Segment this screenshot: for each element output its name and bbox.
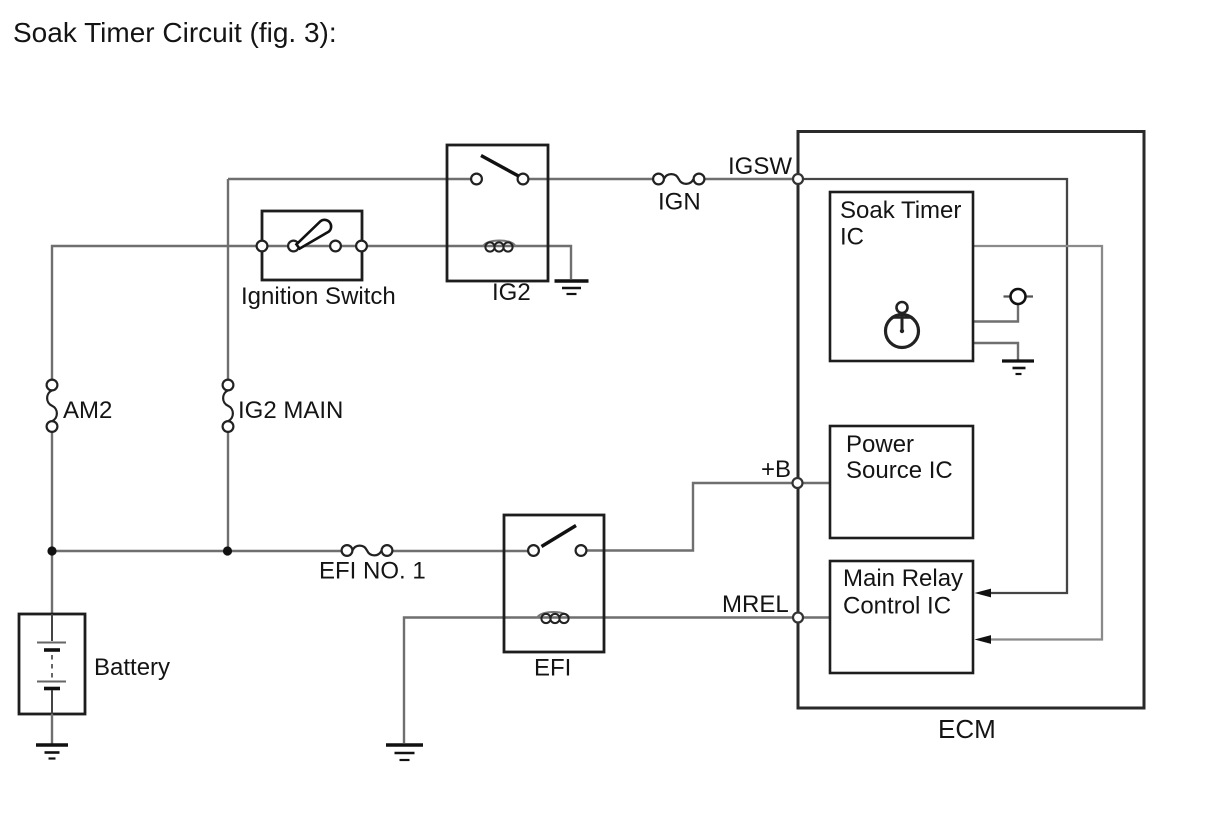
junction dot at battery bus / IG2 MAIN column	[223, 546, 232, 555]
wire y=179 from IGN fuse to IGSW node	[704, 178, 794, 180]
svg-text:Ignition Switch: Ignition Switch	[241, 283, 396, 310]
svg-text:Control IC: Control IC	[843, 593, 951, 620]
wire vertical AM2 column lower	[51, 432, 53, 551]
arrowhead into Main Relay Control IC from Soak Timer line	[975, 635, 992, 644]
wire from +B node to Power Source IC	[802, 482, 830, 484]
svg-text:Soak Timer: Soak Timer	[840, 197, 961, 224]
wire from Soak Timer IC output right and down to Main Relay Control IC arrow	[973, 246, 1102, 640]
svg-text:+B: +B	[761, 456, 791, 483]
wire from Ignition Switch right terminal to IG2 coil	[367, 246, 572, 279]
fuse AM2	[47, 380, 58, 432]
wire from AM2 column top to Ignition Switch left terminal	[52, 246, 257, 380]
fuse IG2 MAIN	[223, 380, 234, 432]
battery cells	[37, 614, 66, 714]
svg-text:Main Relay: Main Relay	[843, 565, 963, 592]
wire y=179 from IG2 relay right contact to IGN fuse	[529, 178, 654, 180]
relay EFI switch contacts	[528, 545, 539, 556]
wire EFI coil left lead to ground column	[404, 618, 793, 744]
ECM box	[798, 132, 1144, 709]
arrowhead into Main Relay Control IC from IGSW line	[975, 589, 992, 598]
Power Source IC box	[830, 426, 973, 538]
svg-text:Power: Power	[846, 431, 914, 458]
wire vertical IG2 MAIN column lower	[227, 432, 229, 551]
wire Soak Timer IC to terminal symbol	[973, 305, 1018, 322]
svg-text:MREL: MREL	[722, 591, 789, 618]
wire y=179 from IG2 MAIN column to IG2 relay left contact	[228, 178, 471, 180]
svg-text:IG2: IG2	[492, 279, 531, 306]
battery ground stem	[51, 714, 53, 744]
svg-text:IGN: IGN	[658, 189, 701, 216]
ground under IG2 coil	[555, 281, 589, 294]
ground under battery	[36, 745, 68, 759]
wire Soak Timer IC to ground	[973, 343, 1018, 360]
battery box	[19, 614, 85, 714]
Soak Timer IC box	[830, 192, 973, 361]
wire from IGSW node right and down to Main Relay Control IC arrow	[803, 179, 1067, 593]
relay IG2 coil	[483, 241, 516, 252]
svg-text:IC: IC	[840, 224, 864, 251]
svg-text:EFI: EFI	[534, 655, 571, 682]
svg-text:EFI NO. 1: EFI NO. 1	[319, 558, 426, 585]
wire from bus down to battery	[51, 551, 53, 614]
junction dot at battery bus / AM2 column	[47, 546, 56, 555]
relay EFI coil	[537, 612, 570, 623]
relay IG2 switch contacts	[471, 174, 482, 185]
ground right of Soak Timer IC	[1002, 361, 1034, 374]
terminal symbol right of Soak Timer IC	[1004, 289, 1034, 304]
ignition switch key	[296, 220, 331, 249]
relay IG2 switch blade	[481, 156, 519, 177]
ignition switch terminals	[257, 241, 268, 252]
svg-text:IG2 MAIN: IG2 MAIN	[238, 397, 343, 424]
wire vertical IG2 MAIN column upper	[227, 179, 229, 380]
timer clock icon	[886, 302, 919, 348]
svg-text:ECM: ECM	[938, 714, 996, 744]
ignition switch box	[262, 211, 362, 280]
wire from MREL node to Main Relay Control IC	[803, 616, 830, 618]
relay EFI switch blade	[542, 526, 577, 547]
relay EFI box	[504, 515, 604, 652]
ground under EFI coil column	[386, 745, 423, 760]
Main Relay Control IC box	[830, 561, 973, 673]
wire battery bus left	[52, 550, 342, 552]
svg-text:AM2: AM2	[63, 397, 112, 424]
node MREL	[793, 613, 803, 623]
fuse IGN	[653, 174, 704, 185]
svg-text:Battery: Battery	[94, 654, 170, 681]
svg-text:Soak Timer Circuit (fig. 3):: Soak Timer Circuit (fig. 3):	[13, 17, 337, 48]
svg-text:IGSW: IGSW	[728, 153, 792, 180]
svg-text:Source IC: Source IC	[846, 457, 953, 484]
wire inside ignition switch between terminals	[268, 245, 356, 247]
fuse EFI NO.1	[342, 545, 393, 556]
node IGSW	[793, 174, 803, 184]
wire bus from EFI NO.1 fuse to EFI relay left contact	[392, 550, 528, 552]
node +B	[793, 478, 803, 488]
relay IG2 box	[447, 145, 548, 281]
wire from EFI relay right contact up to +B node	[587, 483, 793, 551]
